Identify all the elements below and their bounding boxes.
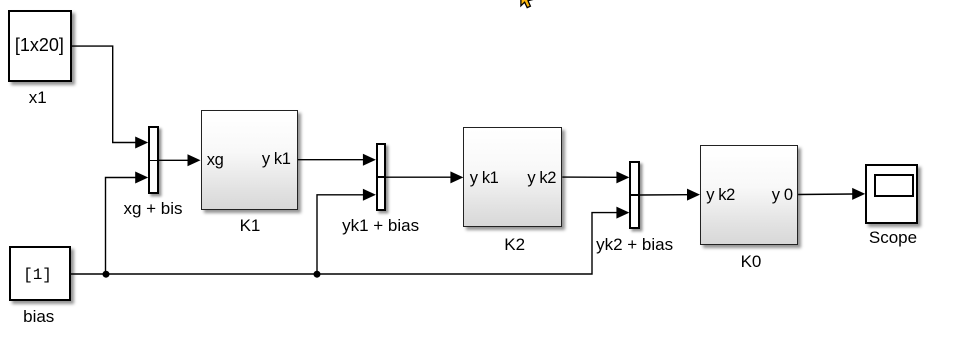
mux name xg + bis bbox=[113, 199, 193, 219]
constant x1 [1x20] bbox=[8, 10, 72, 82]
mux divider bbox=[629, 194, 640, 196]
constant bias [1] bbox=[9, 246, 71, 301]
wire junction B up to mux2 bottom input bbox=[317, 189, 376, 274]
wire K1 output to mux2 top input bbox=[298, 154, 376, 166]
junction B bbox=[314, 271, 321, 278]
port label y k2 bbox=[706, 186, 735, 204]
wire K2 output to mux3 top input bbox=[562, 171, 629, 183]
wire mux2 output to K2 input bbox=[386, 171, 463, 183]
scope block bbox=[865, 164, 918, 224]
wire mux1 output to K1 input xg bbox=[159, 154, 201, 166]
wire bias bus junction B to mux3 riser bbox=[317, 207, 629, 274]
subsystem K1 bbox=[201, 110, 299, 210]
port label y k1 bbox=[470, 169, 499, 187]
wire K0 output to Scope bbox=[798, 188, 865, 200]
mux xg + bis bbox=[148, 126, 159, 194]
mouse cursor bbox=[521, 0, 533, 8]
subsystem K0 bbox=[700, 145, 798, 245]
block name K2 bbox=[475, 235, 555, 255]
wire mux3 output to K0 input bbox=[640, 189, 700, 201]
mux divider bbox=[376, 176, 386, 178]
port label y k2 bbox=[496, 169, 556, 187]
scope screen bbox=[874, 174, 914, 197]
block name bias bbox=[0, 307, 79, 327]
port label xg bbox=[207, 151, 224, 169]
wire junction A up to mux1 bottom input bbox=[106, 172, 149, 275]
wire bias bus junction A to junction B bbox=[106, 273, 318, 275]
wire x1 to mux1 top input bbox=[72, 46, 148, 148]
block name K0 bbox=[711, 252, 791, 272]
port label y 0 bbox=[733, 186, 793, 204]
mux yk2 + bias bbox=[629, 161, 640, 229]
mux name yk2 + bias bbox=[575, 235, 695, 255]
junction A bbox=[103, 271, 110, 278]
mux yk1 + bias bbox=[376, 143, 386, 211]
block name K1 bbox=[210, 216, 290, 236]
mux name yk1 + bias bbox=[321, 216, 441, 236]
block name x1 bbox=[0, 88, 78, 108]
port label y k1 bbox=[231, 150, 291, 168]
block name Scope bbox=[853, 228, 933, 248]
subsystem K2 bbox=[463, 127, 562, 227]
mux divider bbox=[148, 160, 159, 162]
wire bias output to junction A bbox=[70, 273, 105, 275]
value label [1x20] bbox=[0, 35, 79, 55]
value label [1] bbox=[0, 265, 78, 285]
